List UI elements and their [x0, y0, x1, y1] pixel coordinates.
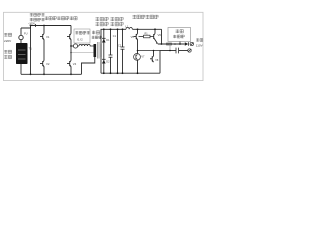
svg-text:110V: 110V: [196, 44, 203, 48]
label regulator filter (2 lines): [111, 17, 115, 21]
label T2 (2 lines): [92, 31, 95, 35]
secondary top bus: [101, 29, 126, 44]
wire V1-V2: [43, 40, 45, 61]
transistor V5: [137, 29, 139, 33]
svg-text:V1: V1: [46, 35, 50, 39]
wire V7 to bus: [137, 60, 139, 73]
oscillator box: [74, 29, 90, 43]
wire column: [117, 29, 119, 73]
label high-voltage switching line: [45, 16, 48, 20]
output wire 1: [158, 43, 185, 45]
T2 core: [97, 42, 99, 59]
output wire 2: [160, 50, 176, 52]
choke L1: [126, 27, 132, 29]
svg-text:V4: V4: [73, 62, 77, 66]
label control line (top right): [133, 15, 137, 19]
transistor V1: [43, 26, 45, 34]
resistor R1: [144, 35, 151, 38]
svg-text:FU: FU: [24, 31, 28, 35]
fuse FU: [19, 28, 23, 43]
transistor V2: [40, 61, 44, 67]
node dot: [43, 25, 45, 27]
transistor V8: [150, 51, 154, 63]
svg-text:f1 f2: f1 f2: [77, 38, 83, 42]
diode VD3: [185, 42, 188, 46]
svg-text:L1: L1: [125, 25, 129, 29]
diode VD1: [102, 39, 106, 43]
transistor V6: [152, 29, 157, 43]
node dot: [30, 25, 32, 27]
wire V3-V4: [70, 40, 72, 61]
output filter box: [168, 28, 191, 42]
border frame: [4, 12, 204, 80]
svg-text:V6: V6: [158, 33, 162, 37]
link wire1-wire2: [169, 44, 171, 51]
wire V4 to bus: [70, 67, 72, 75]
transistor V7 in can: [134, 54, 141, 61]
secondary bottom bus: [101, 72, 160, 74]
transformer T2 primary bar: [94, 44, 97, 57]
small resistor on wire1: [167, 43, 172, 45]
diode VD2: [102, 60, 106, 64]
capacitor C1 column: [110, 29, 112, 55]
svg-text:~300V: ~300V: [28, 22, 35, 25]
tick on bus: [35, 24, 37, 27]
wire T1 bottom to bottom bus: [20, 64, 22, 74]
stub box to wire1: [179, 42, 181, 45]
output jack 1: [190, 42, 193, 45]
diode column wire: [103, 29, 105, 73]
bottom bus corner up: [159, 51, 161, 74]
label AC input line2: [4, 55, 7, 59]
primary return wire: [82, 57, 95, 74]
inductor L2: [78, 44, 94, 46]
capacitor C3: [175, 48, 177, 54]
label output voltage line1: [196, 38, 199, 41]
output jack 2: [188, 49, 191, 52]
feedback wire: [138, 50, 161, 52]
transistor V4: [67, 61, 71, 67]
top bus primary: [31, 25, 72, 27]
T2 secondary: [100, 44, 102, 57]
label mains input line1: [4, 33, 7, 37]
capacitor C2 column: [122, 29, 124, 47]
node midpoint: [70, 45, 72, 47]
wire transformer branch vertical: [30, 26, 32, 75]
faint return line: [71, 52, 94, 54]
svg-text:220V: 220V: [4, 39, 12, 43]
wire V2 to bus: [43, 67, 45, 75]
wire fuse to top bus: [21, 26, 31, 29]
label rectifier-filter block (2 lines): [30, 13, 33, 16]
bus corner to output node: [161, 29, 163, 44]
transistor V3: [70, 26, 72, 34]
wire midpoint to sensor: [71, 45, 73, 47]
bottom bus primary: [21, 73, 82, 75]
wire V5 emitter down: [137, 40, 139, 54]
current sensor circle: [73, 44, 77, 48]
label rectify-filter (2 lines): [96, 17, 100, 21]
transformer T1 black block: [16, 43, 28, 64]
label AC input line1: [4, 50, 7, 54]
svg-text:V2: V2: [46, 62, 50, 66]
secondary bottom wire: [100, 57, 102, 73]
